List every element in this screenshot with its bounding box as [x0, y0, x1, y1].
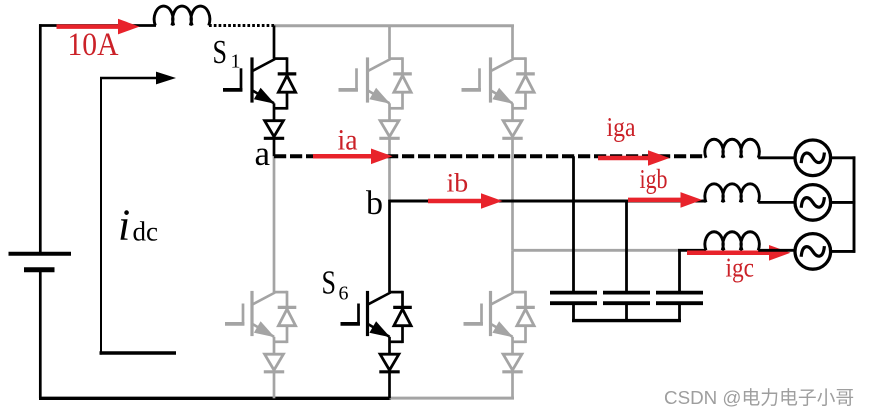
wire: phase a dashed line [274, 154, 704, 158]
inductor Lb [705, 184, 759, 203]
current arrow i_dc (black) [100, 72, 176, 85]
capacitor Ca [550, 293, 597, 321]
transistor S4 (gray, lower leg1) [225, 291, 296, 372]
wire: top-left horizontal from battery rail to inductor [39, 24, 156, 254]
transistor S5 (gray, upper leg3) [462, 57, 535, 138]
current arrow 10A (red) [57, 19, 140, 35]
wire: dotted segment inductor to leg1 top [209, 24, 275, 27]
wire: node c down to S2 (gray) [511, 250, 514, 292]
current arrow ib [428, 193, 503, 209]
wire: node b down to S6 (black) [388, 200, 391, 293]
inductor Lc [705, 232, 759, 251]
current arrow igc [687, 245, 791, 261]
current arrow igb [628, 192, 702, 208]
label S1 [213, 34, 241, 73]
battery V_dc positive plate [9, 252, 72, 256]
wire: source c to right bus [830, 250, 855, 253]
wire: source a to right bus [830, 156, 855, 159]
capacitor Cc [656, 293, 703, 321]
transistor S1 (IGBT with antiparallel diode and series diode) [223, 57, 296, 138]
wire: phase c line gray segment [513, 249, 680, 252]
svg-text:10A: 10A [68, 27, 119, 63]
wire: bottom bus gray (leg2 to leg3) [390, 397, 515, 400]
wire: inductor Lb to source [758, 201, 795, 204]
label S6 [322, 265, 349, 305]
svg-text:S: S [213, 34, 228, 71]
AC source phase a [795, 140, 831, 176]
label 10A [68, 27, 119, 63]
watermark CSDN [664, 387, 854, 408]
battery V_dc negative plate [24, 267, 55, 272]
wire: leg3 collector from top bus (gray) [511, 26, 514, 59]
svg-text:ia: ia [338, 124, 358, 157]
label igb [640, 164, 668, 194]
label i_dc [118, 201, 158, 250]
wire: cap branch b vertical [625, 201, 628, 291]
wire: S6 series diode to bottom bus [388, 372, 391, 399]
label ia [338, 124, 358, 157]
wire: source b to right bus [830, 201, 855, 204]
label igc [726, 253, 755, 283]
wire: leg1 collector from top bus [273, 26, 276, 59]
label ib [447, 168, 469, 197]
current arrow iga [598, 150, 670, 166]
wire: top bus gray to legs 2 and 3 [274, 24, 514, 27]
svg-text:6: 6 [339, 283, 349, 305]
node b label [366, 185, 383, 222]
svg-text:i: i [118, 201, 130, 250]
AC source phase c [795, 234, 831, 270]
svg-text:1: 1 [231, 51, 241, 73]
wire: inductor La to source [758, 156, 795, 159]
svg-text:igb: igb [640, 164, 668, 194]
svg-text:iga: iga [607, 112, 636, 142]
wire: bottom bus black (to S6 leg) [39, 397, 391, 400]
inductor La [705, 139, 759, 158]
transistor S3 (gray, upper leg2) [339, 57, 412, 138]
current arrow ia [313, 149, 393, 165]
wire: S1 series diode to node a [273, 138, 276, 156]
wire: leg1 node a down to S4 [273, 156, 276, 292]
transistor S6 (IGBT with antiparallel diode and series diode) [341, 291, 412, 372]
node a label [255, 134, 271, 173]
svg-text:dc: dc [133, 217, 159, 247]
svg-text:igc: igc [726, 253, 755, 283]
wire: phase b line [390, 200, 707, 203]
wire: battery negative to bottom bus [39, 270, 42, 399]
inductor Ldc (DC link choke) [154, 6, 210, 25]
wire: right bus vertical [853, 156, 856, 252]
transistor S2 (gray, lower leg3) [464, 291, 535, 372]
svg-text:ib: ib [447, 168, 469, 197]
svg-text:a: a [255, 134, 271, 173]
label iga [607, 112, 636, 142]
wire: S4 series diode to bottom bus [273, 372, 276, 399]
wire: capacitor common bus [572, 319, 681, 322]
wire: cap branch c vertical [678, 250, 681, 291]
wire: leg3 series diode down to node c (gray) [511, 138, 514, 250]
svg-text:b: b [366, 185, 383, 222]
wire: cap branch a vertical [572, 156, 575, 291]
wire: S2 series diode to bottom bus [511, 372, 514, 399]
AC source phase b [795, 185, 831, 221]
svg-text:S: S [322, 265, 337, 302]
wire: leg2 collector from top bus (gray) [388, 26, 391, 59]
svg-text:CSDN @电力电子小哥: CSDN @电力电子小哥 [664, 387, 854, 408]
wire: i_dc loop bottom [100, 351, 177, 354]
capacitor Cb [603, 293, 650, 321]
wire: i_dc loop vertical [100, 78, 102, 355]
wire: leg2 series diode down to node b (gray) [388, 138, 391, 201]
wire: inductor Lc to source [758, 249, 795, 252]
wire: phase c line black segment [678, 249, 706, 252]
